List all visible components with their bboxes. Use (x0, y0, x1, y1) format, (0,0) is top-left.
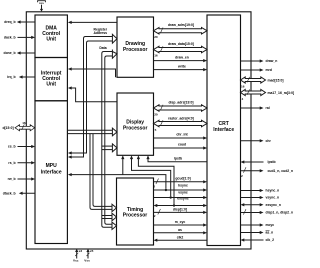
wire Display to Interrupt Control (frame interrupt) (68, 86, 117, 101)
svg-text:done_b: done_b (4, 51, 16, 55)
svg-text:chr: chr (266, 139, 272, 143)
wire hsync (Timing to CRT) (154, 184, 208, 192)
wire lpstb (CRT to Display Processor, internal) (146, 155, 207, 161)
svg-text:disp[1:0]: disp[1:0] (173, 208, 187, 212)
svg-text:2: 2 (154, 214, 156, 218)
svg-text:16: 16 (241, 85, 245, 89)
wire Drawing to DMA (dma request) (68, 21, 117, 24)
wire Timing to Display (exsync tap) (137, 155, 174, 204)
wire disp[1:0] (Timing to CRT) (154, 208, 208, 218)
svg-text:20: 20 (154, 112, 158, 116)
svg-text:5: 5 (155, 128, 157, 132)
svg-text:Data: Data (99, 46, 106, 50)
bus register address (vertical, to Drawing and MPU) (68, 34, 117, 158)
svg-text:dtack_b: dtack_b (3, 191, 16, 195)
svg-text:clk_2: clk_2 (266, 238, 275, 242)
svg-text:write: write (177, 64, 186, 68)
pin cs_b (input, left) (8, 145, 35, 149)
svg-text:rw_b: rw_b (8, 177, 16, 181)
svg-text:m_cyc: m_cyc (175, 220, 186, 224)
svg-text:x3: x3 (79, 249, 83, 253)
svg-text:20: 20 (154, 35, 158, 39)
pin exsync_n (bidirectional, right) (241, 203, 281, 207)
label Drawing Processor (123, 41, 148, 53)
block CRT Interface (207, 15, 241, 246)
svg-text:hsync_n: hsync_n (266, 189, 280, 193)
wire coud (Display to CRT) (154, 143, 208, 150)
wire Timing to Display (vsync tap) (130, 155, 171, 196)
bus MPU to Display (register data) (67, 128, 117, 136)
block Interrupt Control Unit (35, 58, 67, 101)
bus data (vertical, Drawing / Display / Timing) (102, 50, 117, 230)
pin dack_b (input, left) (4, 36, 35, 40)
pin rs_b (input, left) (8, 161, 35, 165)
svg-text:x5: x5 (90, 249, 94, 253)
pin dreq_b (output, left) (4, 20, 35, 24)
svg-text:clk2: clk2 (177, 236, 184, 240)
pin mcyc (output, right) (241, 223, 275, 227)
wire hsync tap to Display and MPU (68, 155, 166, 189)
svg-text:Processor: Processor (123, 47, 148, 53)
svg-text:lpstb: lpstb (174, 156, 182, 160)
svg-text:Interface: Interface (41, 170, 62, 176)
pin as_n (output, right) (241, 230, 274, 234)
pin hsync_n (output, right) (241, 189, 280, 193)
svg-text:2: 2 (241, 174, 243, 178)
wire write (Drawing to CRT) (154, 64, 208, 71)
label Display Processor (123, 120, 148, 132)
svg-text:cud1_n, cud2_n: cud1_n, cud2_n (268, 169, 294, 173)
svg-text:draw_en: draw_en (175, 55, 189, 59)
label Data (99, 46, 106, 50)
label CRT Interface (213, 121, 234, 133)
svg-text:exsync: exsync (177, 197, 189, 201)
pin draw_n (output, right) (241, 59, 278, 63)
block DMA Control Unit (35, 15, 67, 58)
pin ral (output, right) (241, 106, 270, 110)
pin disp1_n, disp2_n (output, right) (241, 209, 294, 215)
svg-text:16: 16 (154, 54, 158, 58)
svg-text:hsync: hsync (178, 184, 188, 188)
pin rw_b (input, left) (8, 177, 35, 181)
svg-text:exsync_n: exsync_n (266, 203, 281, 207)
pin vsync_n (output, right) (241, 196, 280, 200)
svg-text:draw_data[15:0]: draw_data[15:0] (168, 42, 194, 46)
pin irq_b (output, left) (7, 75, 35, 79)
svg-text:d[15:0]: d[15:0] (2, 126, 13, 130)
block Drawing Processor (117, 17, 154, 77)
svg-text:16: 16 (22, 121, 26, 125)
pin d[15:0] (bidirectional data bus, left) (2, 121, 34, 131)
bus raster_adrs[4:0] (Display to CRT) (154, 117, 208, 132)
wire as (Timing to CRT) (154, 228, 208, 234)
pin clk_2 (input, right) (241, 238, 275, 242)
wire Drawing to Interrupt Control (drawing interrupt) (68, 67, 116, 77)
svg-text:MPU: MPU (46, 163, 58, 169)
svg-text:raster_adrs[4:0]: raster_adrs[4:0] (168, 117, 194, 121)
svg-text:dreq_b: dreq_b (4, 20, 15, 24)
svg-text:disp_adrs[19:0]: disp_adrs[19:0] (168, 100, 193, 104)
pin mrd (output, right) (241, 68, 272, 72)
wire exsync (bidirectional, Timing and CRT) (154, 197, 208, 208)
pin lpstb (input, right) (241, 160, 276, 164)
svg-text:draw_n: draw_n (266, 59, 278, 63)
wire vsync (Timing to CRT) (154, 190, 208, 199)
block Timing Processor (117, 178, 154, 245)
wire draw_en (Drawing to CRT) (154, 55, 208, 62)
svg-text:2: 2 (153, 184, 155, 188)
pin res (top reset input) (38, 1, 46, 12)
svg-text:draw_adrs[19:0]: draw_adrs[19:0] (168, 23, 194, 27)
svg-text:mrd: mrd (266, 68, 272, 72)
svg-text:lpstb: lpstb (268, 160, 276, 164)
pin ma17_16_ra[3:0] (bidirectional bus, right) (241, 89, 295, 101)
svg-text:mcyc: mcyc (266, 223, 275, 227)
svg-text:Processor: Processor (123, 126, 148, 132)
wire gcud[1:0] (Timing to CRT) (153, 177, 207, 189)
svg-text:gcud[1:0]: gcud[1:0] (175, 177, 190, 181)
svg-text:Unit: Unit (46, 37, 56, 43)
wire m_cyc (Timing to CRT) (154, 220, 208, 226)
label Register Address (94, 27, 108, 35)
block MPU Interface (35, 101, 67, 244)
svg-text:Processor: Processor (123, 213, 148, 219)
pin chr (output, right) (241, 139, 272, 143)
svg-text:disp1_n, disp2_n: disp1_n, disp2_n (266, 211, 294, 215)
label Timing Processor (123, 207, 148, 219)
svg-text:rs_b: rs_b (8, 161, 15, 165)
svg-text:irq_b: irq_b (7, 75, 15, 79)
svg-text:Unit: Unit (46, 82, 56, 88)
bus disp_adrs[19:0] (Display to CRT) (154, 100, 208, 116)
svg-text:mad[15:0]: mad[15:0] (268, 78, 284, 82)
pin cud1_n, cud2_n (output, right) (241, 167, 294, 178)
pin done_b (output, left) (4, 51, 35, 55)
svg-text:as_n: as_n (266, 231, 274, 235)
svg-text:4: 4 (242, 97, 244, 101)
svg-text:cs_b: cs_b (8, 145, 16, 149)
label Interrupt Control Unit (41, 71, 62, 88)
svg-text:Address: Address (94, 31, 108, 35)
pin dtack_b (output, left) (3, 191, 35, 195)
outer chip border (26, 12, 251, 249)
wire clk2 (CRT to Timing) (154, 236, 208, 242)
svg-text:Vcc: Vcc (73, 259, 79, 263)
pin mad[15:0] (bidirectional bus, right) (241, 77, 284, 89)
pin Vss (bottom power, x5) (84, 249, 93, 263)
svg-text:ma17_16_ra[3:0]: ma17_16_ra[3:0] (268, 91, 295, 95)
label MPU Interface (41, 163, 62, 175)
svg-text:chr_int: chr_int (176, 133, 188, 137)
svg-text:dack_b: dack_b (4, 36, 16, 40)
label DMA Control Unit (42, 26, 60, 43)
svg-text:coud: coud (178, 143, 186, 147)
bus draw_adrs[19:0] (Drawing to CRT) (154, 23, 208, 39)
bus to Timing (upper branch) (90, 134, 117, 212)
svg-text:Vss: Vss (84, 259, 90, 263)
svg-text:ral: ral (266, 106, 270, 110)
svg-text:vsync: vsync (178, 190, 188, 194)
pin Vcc (bottom power, x3) (73, 249, 82, 263)
svg-text:vsync_n: vsync_n (266, 196, 280, 200)
svg-text:as: as (178, 228, 182, 232)
wire chr_int (Display to CRT) (154, 133, 208, 140)
block Display Processor (117, 93, 154, 155)
bus draw_data[15:0] (Drawing to CRT) (154, 42, 208, 58)
svg-text:Interface: Interface (213, 127, 234, 133)
